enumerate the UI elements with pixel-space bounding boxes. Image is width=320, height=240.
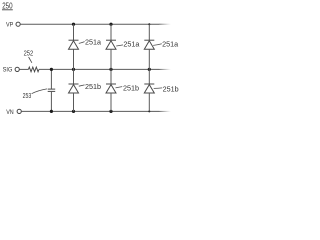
svg-text:252: 252	[24, 49, 34, 58]
junction dot VN col2	[109, 110, 112, 113]
wire VP rail	[20, 23, 159, 25]
svg-text:251a: 251a	[85, 40, 101, 47]
wire diode 251b col2 to VN	[110, 93, 112, 111]
wire diode 251a col1 to SIG	[73, 49, 75, 69]
wire diode 251b col3 to VN	[148, 93, 150, 111]
wire SIG to diode 251b col3	[148, 69, 150, 84]
wire VN rail	[21, 110, 159, 112]
terminal SIG	[3, 67, 20, 74]
wire VP to diode 251a col1	[73, 24, 75, 40]
junction dot VN col3	[148, 110, 150, 112]
wire SIG to capacitor	[50, 69, 52, 89]
junction dot VP col3	[148, 23, 150, 25]
wire diode 251a col3 to SIG	[148, 49, 150, 69]
junction dot VP col1	[72, 23, 75, 26]
svg-text:251a: 251a	[162, 41, 178, 48]
title 250	[2, 1, 13, 10]
svg-text:251a: 251a	[123, 41, 139, 48]
junction dot SIG cap	[50, 68, 53, 71]
junction dot SIG col3	[148, 68, 151, 71]
svg-text:251b: 251b	[85, 84, 101, 91]
wire diode 251b col1 to VN	[73, 93, 75, 111]
label 251b col2	[116, 85, 140, 92]
junction dot SIG col2	[109, 68, 112, 71]
wire VP rail continuation	[159, 23, 171, 25]
diode 251a col3	[144, 40, 154, 49]
wire VN rail continuation	[159, 110, 171, 112]
svg-text:250: 250	[2, 1, 13, 10]
resistor 252	[28, 67, 39, 72]
diode 251a col1	[69, 40, 79, 49]
svg-text:VP: VP	[6, 22, 13, 29]
label 251b col1	[79, 84, 101, 91]
label 252	[24, 49, 34, 63]
wire diode 251a col2 to SIG	[110, 49, 112, 69]
junction dot VN col1	[72, 110, 75, 113]
wire VP to diode 251a col3	[148, 24, 150, 40]
diode 251b col2	[106, 84, 116, 93]
svg-text:253: 253	[23, 91, 32, 100]
svg-text:251b: 251b	[123, 85, 139, 92]
terminal VP	[6, 22, 20, 29]
svg-text:251b: 251b	[163, 87, 179, 94]
wire SIG rail	[39, 68, 159, 70]
diode 251b col3	[144, 84, 154, 93]
label 251a col1	[79, 40, 101, 47]
junction dot SIG col1	[72, 68, 75, 71]
label 251a col2	[116, 41, 139, 48]
diode 251a col2	[106, 40, 116, 49]
wire SIG to diode 251b col1	[73, 69, 75, 84]
wire VP to diode 251a col2	[110, 24, 112, 40]
wire SIG to resistor	[19, 68, 28, 70]
junction dot VN cap	[50, 110, 53, 113]
label 253	[23, 89, 47, 100]
wire SIG rail continuation	[159, 68, 171, 70]
label 251a col3	[153, 41, 178, 48]
svg-text:VN: VN	[6, 109, 14, 116]
wire SIG to diode 251b col2	[110, 69, 112, 84]
terminal VN	[6, 109, 21, 116]
label 251b col3	[154, 87, 179, 94]
capacitor 253	[48, 89, 56, 91]
svg-text:SIG: SIG	[3, 67, 13, 74]
junction dot VP col2	[109, 23, 112, 26]
diode 251b col1	[69, 84, 79, 93]
wire capacitor to VN	[50, 92, 52, 112]
